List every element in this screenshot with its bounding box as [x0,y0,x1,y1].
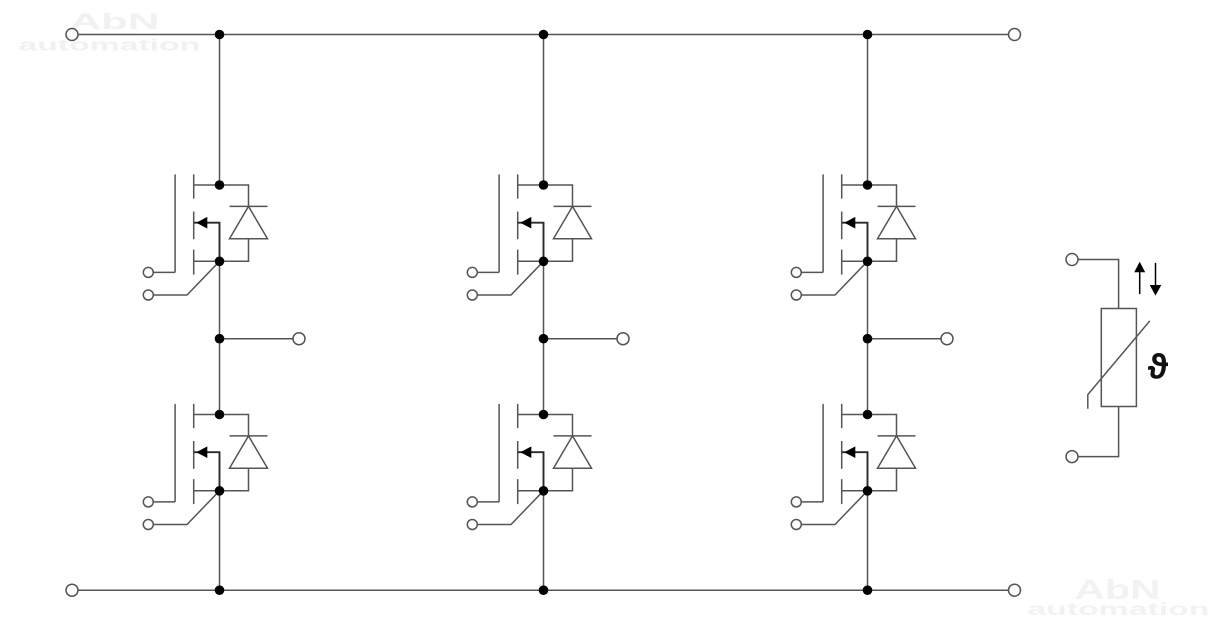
MOSFET Q3 (leg 2 high side) [467,174,591,300]
junction: leg1 DC+ [215,30,225,40]
svg-text:AbN: AbN [70,9,160,34]
thermistor bottom lead wire [1078,407,1119,457]
junction: leg3 DC+ [863,30,873,40]
leg 2 wire: Q4 source to rail [543,491,545,590]
DC- left terminal [66,584,78,596]
junction: leg2 phase [539,334,549,344]
DC+ left terminal [66,29,78,41]
thermistor bottom terminal [1066,451,1078,463]
leg 2 phase output wire [544,338,618,340]
thermistor top lead wire [1078,260,1119,309]
thermistor top terminal [1066,254,1078,266]
leg 1 wire: phase node to Q2 drain [219,339,221,415]
junction: leg2 DC+ [539,30,549,40]
leg 1 phase terminal [293,333,305,345]
MOSFET Q6 (leg 3 low side) [791,404,915,530]
up arrowhead [1134,262,1145,273]
leg 2 phase terminal [617,333,629,345]
up arrow shaft [1139,271,1141,294]
leg 3 wire: Q6 source to rail [867,491,869,590]
leg 1 wire: rail to Q1 drain [219,35,221,186]
leg 3 wire: Q5 source to phase node [867,261,869,338]
thermistor diagonal stroke [1088,321,1150,409]
junction: leg1 DC- [215,585,225,595]
leg 3 phase output wire [868,338,942,340]
thermistor group [1066,254,1156,463]
leg 2 wire: phase node to Q4 drain [543,339,545,415]
leg 1 wire: Q2 source to rail [219,491,221,590]
down arrowhead [1150,285,1162,296]
thermistor body rect [1101,309,1136,407]
leg 1 wire: Q1 source to phase node [219,261,221,338]
DC- rail wire [78,589,1009,591]
junction: leg2 DC- [539,585,549,595]
leg 3 wire: rail to Q5 drain [867,35,869,186]
DC+ rail wire [78,34,1009,36]
svg-text:automation: automation [18,37,200,55]
junction: leg1 phase [215,334,225,344]
down arrow shaft [1155,263,1157,286]
leg 2 wire: Q3 source to phase node [543,261,545,338]
leg 1 phase output wire [220,338,294,340]
MOSFET Q1 (leg 1 high side) [143,174,267,300]
junction: leg3 phase [863,334,873,344]
MOSFET Q5 (leg 3 high side) [791,174,915,300]
DC+ right terminal [1009,29,1021,41]
svg-text:automation: automation [1027,599,1209,619]
svg-text:ϑ: ϑ [1148,348,1169,387]
leg 2 wire: rail to Q3 drain [543,35,545,186]
DC- right terminal [1009,584,1021,596]
junction dots on rails and phase nodes [215,30,873,595]
leg 3 wire: phase node to Q6 drain [867,339,869,415]
MOSFET Q4 (leg 2 low side) [467,404,591,530]
junction: leg3 DC- [863,585,873,595]
leg 3 phase terminal [941,333,953,345]
MOSFET Q2 (leg 1 low side) [143,404,267,530]
